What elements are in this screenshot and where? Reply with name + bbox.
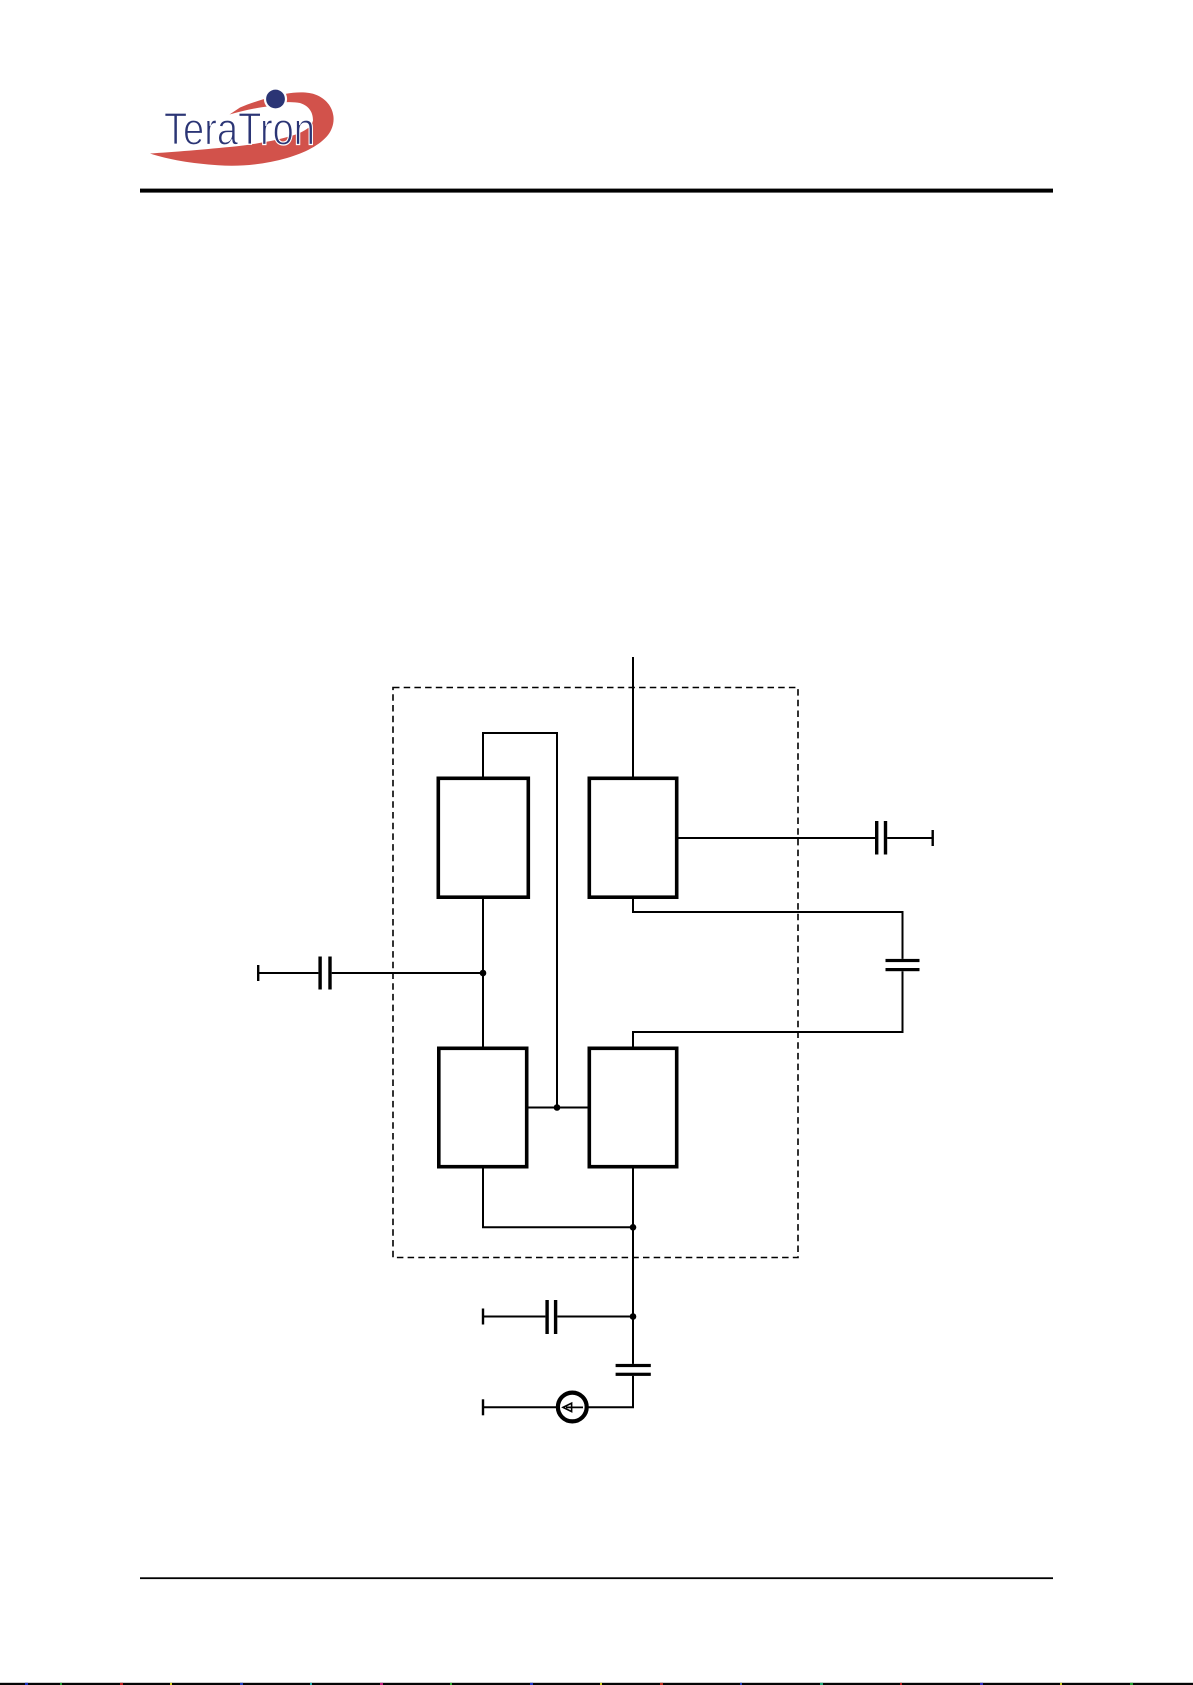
logo satellite ball [264,87,287,110]
bias terminal (lower left) [482,1309,484,1325]
node B junction (mid rail to inter-block wire) [554,1104,561,1111]
node A junction [480,970,487,977]
wire: B1 top feedback over to mid rail [483,733,557,1108]
capacitor C1 (input coupling) [318,957,331,990]
output terminal (right) [932,830,934,846]
wire: current source to left terminal [483,1406,558,1408]
capacitor C5 (series to source) [616,1364,651,1376]
company logo TeraTron swoosh [150,92,334,165]
wire: B2 right output to capacitor C2 [677,837,876,839]
capacitor C2 (output coupling) [875,821,887,855]
wire: B2 bottom around to C3 and B4 top [633,899,903,959]
node C junction [630,1224,637,1231]
input terminal (left) [257,965,259,981]
wire: input to capacitor C1 [258,972,318,974]
wire: B3 right to B4 left [527,1107,590,1109]
svg-text:TeraTron: TeraTron [164,104,315,155]
wire: C2 to output terminal [887,837,931,839]
wire: top supply into block B2 [632,657,634,777]
wire: C1 to node A [332,972,483,974]
footer rule [140,1577,1053,1579]
wire: C3 down and into B4 top [633,971,903,1046]
bottom scan artifact line [0,1683,1193,1685]
wire: bias terminal to capacitor C4 [483,1316,545,1318]
wire: B4 bottom common rail down [632,1167,634,1317]
wire: B1 bottom to B3 top [482,899,484,1047]
wire: C4 to node D [557,1316,633,1318]
current source I1 [558,1393,587,1422]
wire: B3 bottom to common rail [483,1167,633,1228]
block B1 (top-left) [438,778,528,897]
header rule [140,189,1053,193]
capacitor C4 (bias coupling) [545,1300,557,1334]
capacitor C3 (right tank) [886,959,920,971]
dashed IC boundary box [393,688,798,1258]
block B2 (top-right) [589,778,676,897]
node D junction [630,1313,637,1320]
source terminal (bottom left) [482,1399,484,1415]
block B4 (bottom-right) [589,1048,676,1166]
wire: node D down to capacitor C5 [632,1317,634,1364]
wire: C5 down and left to current source [587,1376,633,1407]
block B3 (bottom-left) [439,1048,527,1166]
